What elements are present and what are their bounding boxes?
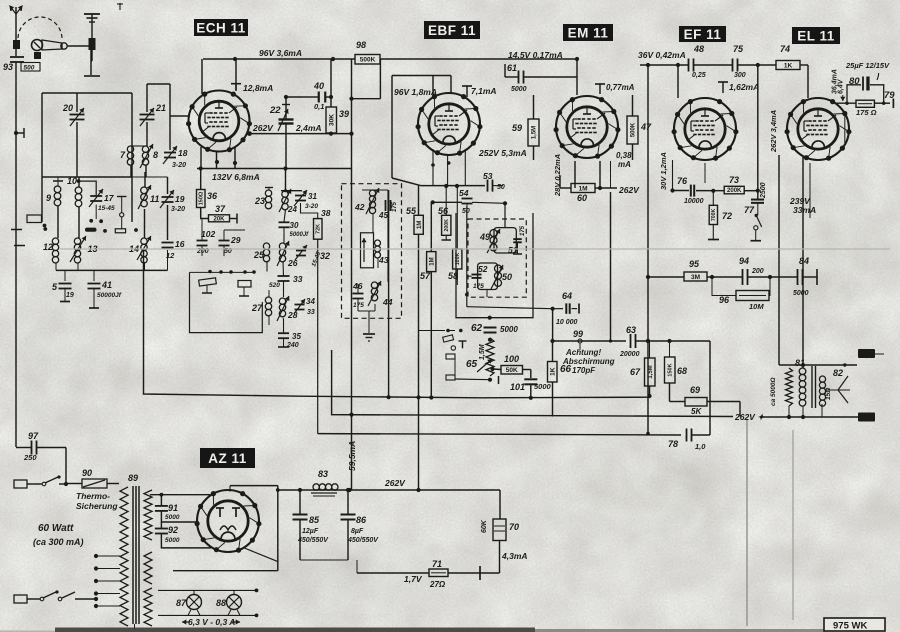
svg-text:23: 23 [254,196,265,206]
svg-text:0,1: 0,1 [314,102,324,111]
svg-text:500: 500 [24,65,35,72]
capacitor 84 5000 [793,256,809,297]
svg-text:34: 34 [306,297,315,306]
wire res68 [669,341,671,402]
svg-text:36,4mA: 36,4mA [832,69,839,94]
capacitor 45 175 [378,200,398,220]
capacitor 5 [52,282,74,299]
svg-text:96V 1,8mA: 96V 1,8mA [394,87,437,97]
terminal tab bottom [858,413,875,422]
transformer 89 heater winding 1 [144,552,152,584]
variable capacitor 21 [140,103,167,126]
svg-text:33mA: 33mA [793,205,816,215]
wire 262V B+ line [277,488,500,492]
coil 14 variable [129,236,151,263]
svg-text:(ca 300 mA): (ca 300 mA) [33,537,84,547]
wire x388 drop [388,190,390,397]
wire EL cathode x779 [778,155,780,365]
capacitor 16 [162,239,185,260]
svg-text:175 Ω: 175 Ω [856,108,877,117]
svg-text:0,38: 0,38 [616,151,632,160]
label 14,5V 0,17mA [508,50,563,60]
wire 31-38 [301,203,318,434]
svg-text:86: 86 [356,515,367,525]
svg-text:15Ω: 15Ω [825,388,832,400]
label 30V 1,2mA [659,152,668,190]
wire x611 drop [609,161,612,343]
label 1,7V [404,574,423,584]
capacitor 61 5000 [505,63,577,93]
wire can bottom [358,284,375,333]
current mark 7,1mA [462,86,497,97]
svg-text:30K: 30K [329,114,336,126]
switch frame mid [190,272,263,332]
svg-text:93: 93 [3,62,13,72]
capacitor 101 5000 [510,379,552,392]
wire EL grid drop [807,65,809,98]
wire right vert x351 [349,59,353,169]
label 239V 33mA [789,196,816,215]
capacitor 64 10000 [556,291,578,326]
coil 24 variable [279,189,297,214]
tube ECH11 [186,91,252,153]
antenna symbol [10,6,23,23]
svg-text:500K: 500K [631,122,637,137]
wire band row1 [42,172,168,194]
svg-text:5000: 5000 [534,382,552,391]
svg-text:150Ω: 150Ω [199,191,205,205]
svg-text:0,25: 0,25 [692,72,706,79]
wire x349 drop [349,169,353,490]
label 6,4V 36,4mA [832,69,846,101]
transformer 89 core [128,473,139,630]
svg-text:262V 3,4mA: 262V 3,4mA [769,110,778,153]
resistor 67 1,5M [630,358,655,386]
svg-text:29: 29 [230,235,241,245]
svg-text:175: 175 [473,283,484,290]
wire y277 mid [707,275,797,279]
svg-text:AZ 11: AZ 11 [208,451,247,466]
resistor 57 1M [420,252,436,281]
wire bus y417 right [762,416,858,418]
resistor 95 3M [684,259,707,281]
wire EBF row y202 [431,200,462,204]
wire ECH plate drop [201,59,203,94]
loop box 49 [494,228,516,253]
svg-text:1M: 1M [429,257,435,265]
resistor 59 1,5M [512,119,539,146]
svg-text:7,1mA: 7,1mA [471,86,497,96]
wire plug to bus [67,46,91,75]
wire cap61 drop [505,64,509,77]
svg-text:63: 63 [626,325,636,335]
svg-text:70: 70 [509,522,519,532]
tube label EF 11 [679,26,726,42]
svg-text:8µF: 8µF [351,528,364,535]
capacitor 85 12uF [293,515,330,545]
svg-text:69: 69 [690,385,700,395]
wire EL bottom drop [809,163,811,218]
coil 25 [253,243,270,262]
coil 10 [67,176,82,207]
svg-text:30: 30 [290,221,299,230]
svg-text:78: 78 [668,439,678,449]
wire cap91-92 column [160,495,162,548]
svg-text:90: 90 [82,468,92,478]
wire cap21 top [147,84,190,150]
wire node 40 [284,95,303,99]
resistor 74 1K [776,44,800,70]
capacitor 91 5000 [155,503,180,521]
label 25uF 12/15V [845,61,890,80]
svg-text:96: 96 [719,295,730,305]
resistor 69 5K [685,385,707,416]
wire res55 col [419,186,446,489]
scan streak vertical 2 [792,430,794,620]
wire mains corner [65,448,67,485]
svg-text:Abschirmung: Abschirmung [562,357,615,366]
svg-text:20: 20 [62,103,73,113]
terminal bar [84,75,100,77]
svg-text:68: 68 [677,366,687,376]
svg-text:6,3 V - 0,3 A: 6,3 V - 0,3 A [188,617,235,627]
svg-text:1M: 1M [578,185,587,192]
svg-text:67: 67 [630,367,641,377]
svg-text:975 WK: 975 WK [833,621,867,632]
tube EF11 [672,98,739,161]
trimmer capacitor 18 [163,146,188,169]
svg-text:82: 82 [833,368,843,378]
svg-text:21: 21 [155,103,166,113]
svg-text:50: 50 [462,208,470,215]
svg-text:5K: 5K [691,407,702,416]
wire bus y397 junctions [387,395,533,400]
svg-text:262V: 262V [618,185,640,195]
svg-text:3-20: 3-20 [171,206,185,213]
svg-text:20000: 20000 [619,351,640,358]
label 60 Watt [33,523,84,547]
wire 96 loop [712,277,770,296]
resistor 70 60K [481,490,519,541]
svg-text:5000: 5000 [500,325,518,334]
svg-text:175: 175 [392,201,398,212]
switch lever 1 [199,278,217,293]
svg-text:47: 47 [640,122,652,132]
terminal left contacts [11,215,46,246]
frame antenna box left [41,93,43,222]
scan streak vertical 1 [746,420,748,626]
svg-text:100: 100 [504,354,519,364]
wire 71 to gnd [448,566,500,580]
coil 50 variable [491,265,512,289]
capacitor 80 25uF [849,76,870,91]
svg-text:240: 240 [286,342,299,349]
wire 27-28 bottoms [269,290,284,325]
resistor 96 10M [719,291,769,312]
mains terminal top [14,480,27,488]
wire coil row [131,146,146,177]
tube label EM 11 [563,24,613,41]
wire cap54 to can [472,201,507,227]
node left contact [43,227,47,231]
svg-text:35: 35 [292,332,301,341]
node tap on antenna lead [14,128,24,138]
svg-text:39: 39 [339,109,349,119]
svg-text:1,5M: 1,5M [648,365,654,378]
wire cap64 end [551,304,580,314]
svg-text:0,77mA: 0,77mA [606,83,635,92]
wire res36 [199,166,209,218]
wire det mid [448,331,499,385]
svg-text:65: 65 [466,359,478,370]
svg-text:EM 11: EM 11 [568,25,609,40]
label Achtung [562,348,615,375]
tube EM11 [554,96,621,159]
wire can50 bottom [465,290,487,298]
wire cap78 to 417 [692,341,710,435]
svg-text:49: 49 [479,232,490,242]
svg-text:15-45: 15-45 [98,205,115,212]
scan band bottom [0,628,825,632]
capacitor 76 10000 [673,176,725,205]
lamp 87 [176,590,202,609]
svg-text:3-20: 3-20 [172,162,186,169]
svg-text:72: 72 [722,211,732,221]
resistor 55 1M [406,206,423,234]
svg-text:mA: mA [618,160,631,169]
capacitor 78 1,0 [668,429,706,452]
wire EBF grid elbow [392,76,451,170]
frame antenna box right [131,93,133,222]
svg-text:76: 76 [677,176,688,186]
document number box 975 WK [824,618,885,632]
capacitor 51 175 [508,225,526,255]
svg-text:12: 12 [43,242,53,252]
coil 7 [120,146,134,165]
coil 49 variable [479,229,500,253]
svg-text:5000: 5000 [165,537,180,544]
svg-text:59: 59 [512,123,522,133]
terminal tab top [858,349,884,358]
svg-text:3M: 3M [691,274,700,281]
wire pot wiper out [490,367,530,378]
wire AZ mid line [161,521,198,523]
svg-text:55: 55 [406,206,417,216]
svg-text:44: 44 [382,297,393,307]
coil 23 [254,188,273,209]
svg-text:85: 85 [309,515,320,525]
wire coil24-cap30 [284,210,286,244]
svg-text:14,5V 0,17mA: 14,5V 0,17mA [508,50,563,60]
wire res67 [647,341,651,398]
svg-text:81: 81 [795,358,805,368]
coil 27 [251,297,272,316]
lamp 88 [216,590,242,609]
wire EM grid bus [575,57,579,95]
svg-text:1,62mA: 1,62mA [729,82,759,92]
svg-text:262V ✦: 262V ✦ [734,412,765,422]
svg-text:EBF 11: EBF 11 [428,23,476,38]
wire cap20 leads [76,93,78,177]
transformer 89 heater winding 2 [144,588,152,626]
wire det out [467,207,563,309]
wire res57 col [430,202,432,397]
resistor 56 200K [438,206,451,235]
svg-text:24: 24 [287,205,297,214]
label Thermo-Sicherung [76,491,118,511]
svg-text:EL 11: EL 11 [797,28,835,43]
svg-text:94: 94 [739,256,749,266]
capacitor 54 50 [459,188,473,218]
svg-text:5000: 5000 [793,290,809,297]
current mark 1,62mA [718,82,759,93]
svg-text:71: 71 [432,559,442,569]
variable capacitor 20 [62,103,85,126]
label 262V [252,123,274,133]
switch contacts det [443,329,467,380]
svg-text:300: 300 [734,72,746,79]
label 262V p [734,412,765,422]
svg-text:99: 99 [573,329,583,339]
svg-text:98: 98 [356,40,366,50]
capacitor 46 175 [352,281,364,309]
svg-text:262V: 262V [384,478,406,488]
tube label EL 11 [792,27,840,44]
wire bus y434 [318,434,681,435]
svg-text:50: 50 [502,272,512,282]
label 2,4mA [295,123,322,133]
label 6,3V 0,3A [182,617,240,627]
svg-text:250: 250 [23,453,37,462]
capacitor 93 [3,57,40,72]
trimmer capacitor 17 15-45 [89,189,115,212]
svg-text:4,3mA: 4,3mA [501,551,528,561]
svg-text:96V 3,6mA: 96V 3,6mA [259,48,302,58]
label 0,38 mA [616,151,632,169]
wire res73 right [711,189,760,193]
wire achtung line [553,340,627,342]
wire cap22 leads [285,96,287,169]
svg-text:5000Jf: 5000Jf [290,232,310,238]
wire x277 column [276,486,280,571]
capacitor 97 250 [16,431,66,462]
svg-text:88: 88 [216,598,226,608]
coil 13 variable [70,236,98,263]
wire 10-17 elbow [79,181,97,195]
wire x552 column [550,309,554,417]
svg-text:132V 6,8mA: 132V 6,8mA [212,172,260,182]
svg-text:1,0: 1,0 [695,442,706,451]
wire res70 down [499,541,501,574]
resistor 66 1K [548,362,572,383]
svg-text:1M: 1M [417,221,423,229]
resistor 37 20K [209,204,238,224]
svg-text:37: 37 [215,204,226,214]
shield box 49-52 [456,213,533,320]
svg-text:17: 17 [104,193,115,203]
choke 83 [311,469,338,496]
voltage taps [94,554,120,608]
label 96V 3,6mA [259,48,302,58]
svg-text:1,5M: 1,5M [479,344,486,360]
svg-text:33: 33 [307,309,315,316]
wire 132V row [197,168,352,170]
svg-text:10000: 10000 [684,198,704,205]
svg-text:31: 31 [308,192,317,201]
svg-text:43: 43 [378,255,389,265]
svg-text:9: 9 [46,193,51,203]
switch lever 2 [238,281,251,297]
wire cap85-86 leads [300,490,348,560]
svg-text:54: 54 [459,188,469,198]
wire res56 col [442,186,452,240]
label 36V 0,42mA [638,50,686,60]
wire az mid vertical [416,489,418,490]
label 59,5mA [347,441,357,471]
svg-text:57: 57 [420,271,431,281]
svg-text:83: 83 [318,469,328,479]
wire AZ top elbow [230,486,278,492]
capacitor 30 5000Jf [279,221,310,238]
svg-text:450/550V: 450/550V [297,537,329,544]
svg-text:1K: 1K [784,62,793,69]
svg-text:89: 89 [128,473,138,483]
svg-text:48: 48 [693,44,704,54]
svg-text:19: 19 [66,292,74,299]
svg-text:74: 74 [780,44,790,54]
switch contact row [190,270,256,274]
svg-text:46: 46 [352,281,363,291]
svg-text:1,7V: 1,7V [404,574,423,584]
wire res58 col [456,186,458,280]
wire EM bottom [560,161,617,190]
resistor 60 1M [571,184,595,204]
capacitor 29 50 [219,235,241,255]
svg-text:6,4V: 6,4V [838,78,845,94]
svg-text:61: 61 [507,63,517,73]
label 262V 3,4mA [769,110,778,153]
current mark 0,77mA [595,83,635,94]
svg-text:102: 102 [201,229,215,239]
coil 28 variable [277,296,298,321]
svg-text:40: 40 [313,81,324,91]
transformer 89 HV winding [144,490,152,540]
resistor 100 50K [501,354,523,374]
svg-text:ca 5000Ω: ca 5000Ω [770,377,777,406]
label 132V 6,8mA [212,172,260,182]
svg-text:Sicherung: Sicherung [76,501,118,511]
svg-text:170pF: 170pF [572,366,596,375]
wire res58 tail [456,269,458,285]
wire coupling bus y65 [640,63,808,67]
svg-text:60K: 60K [481,519,488,533]
wire AZ bottom line [161,547,211,549]
wire EBF pin leads [431,149,465,186]
svg-text:520: 520 [269,282,280,289]
wire lamp top line [158,589,258,593]
svg-text:42: 42 [354,202,365,212]
label 262V under EM [618,185,640,195]
capacitor 35 240 [278,319,301,349]
mark top [117,3,123,10]
svg-text:262V: 262V [252,123,274,133]
switch mains bottom [27,590,98,601]
svg-text:11: 11 [150,194,159,204]
resistor 79 175ohm [856,90,895,117]
svg-text:10 000: 10 000 [556,319,578,326]
capacitor 41 [88,280,122,299]
svg-text:1,5M: 1,5M [532,126,538,139]
